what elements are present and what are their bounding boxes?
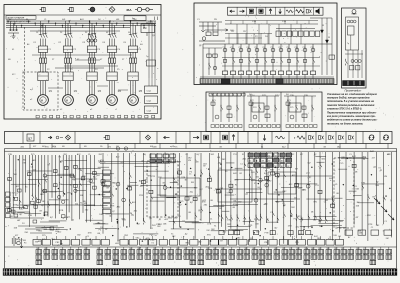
stems from legend strip bbox=[29, 144, 31, 149]
switch box B2 bbox=[63, 72, 73, 81]
strip icon: sine bbox=[276, 136, 285, 139]
svg-text:КМ: КМ bbox=[12, 192, 15, 194]
svg-text:4Щ: 4Щ bbox=[143, 154, 146, 156]
strip icon: pair 2 bbox=[318, 136, 320, 140]
svg-text:КМ: КМ bbox=[384, 176, 387, 178]
svg-text:2В2: 2В2 bbox=[318, 248, 321, 250]
MR divider 1 bbox=[243, 92, 245, 132]
wire column bbox=[283, 152, 285, 244]
MR sub-circuit 3 bbox=[284, 95, 316, 97]
wire column bbox=[249, 152, 251, 242]
svg-text:1ПВ: 1ПВ bbox=[59, 210, 64, 212]
svg-text:1ПВ: 1ПВ bbox=[288, 226, 293, 228]
MR mid boxes bbox=[252, 103, 264, 112]
svg-text:М: М bbox=[66, 98, 68, 102]
TR2 dark footer bbox=[343, 81, 365, 86]
wire column bbox=[135, 153, 137, 221]
svg-text:0В2: 0В2 bbox=[252, 248, 255, 250]
svg-text:1ПВ: 1ПВ bbox=[156, 224, 161, 226]
wire column bbox=[117, 153, 119, 241]
svg-text:2В2: 2В2 bbox=[221, 248, 224, 250]
strip divider bbox=[200, 132, 202, 144]
TR2 wires bbox=[347, 50, 349, 78]
TL mid links bbox=[64, 65, 118, 67]
svg-text:1ЛМ: 1ЛМ bbox=[252, 21, 256, 23]
fuse block F1 bbox=[39, 58, 41, 63]
svg-text:Р11: Р11 bbox=[303, 47, 306, 49]
svg-text:ЗВ2: ЗВ2 bbox=[296, 248, 299, 250]
wire column bbox=[194, 153, 196, 239]
wire column bbox=[230, 152, 232, 229]
thermal relay PT5 bbox=[128, 46, 137, 52]
strip divider bbox=[345, 132, 347, 144]
TR1 right column with diodes bbox=[321, 18, 323, 75]
TR1 branch 5 bbox=[256, 44, 258, 71]
strip icon: boxed 57 bbox=[27, 134, 34, 141]
strip icon: pair 3 bbox=[328, 136, 330, 140]
fuse block F4 bbox=[108, 58, 110, 63]
wire column bbox=[208, 153, 210, 223]
TR1 branch 10 bbox=[296, 44, 298, 71]
svg-text:М: М bbox=[131, 98, 133, 102]
strip divider bbox=[271, 132, 273, 144]
svg-text:282: 282 bbox=[184, 248, 187, 250]
wire column bbox=[102, 153, 104, 234]
wire column bbox=[276, 152, 278, 223]
wire column bbox=[15, 155, 17, 196]
wire column bbox=[200, 153, 202, 221]
bus line L1 bbox=[6, 20, 156, 22]
svg-text:панелях блоков релейных включе: панелях блоков релейных включения bbox=[327, 104, 375, 107]
strip divider bbox=[335, 132, 337, 144]
svg-text:номером 5п(5п), концов проводо: номером 5п(5п), концов проводов bbox=[327, 97, 370, 100]
svg-text:Р9: Р9 bbox=[287, 47, 289, 49]
motor М1 bbox=[38, 95, 49, 106]
wire column bbox=[25, 155, 27, 192]
junction dots bbox=[185, 204, 186, 205]
wire column bbox=[51, 155, 53, 198]
strip icon: up arrow bbox=[233, 135, 235, 141]
strip icon: right arrow bbox=[193, 137, 199, 139]
feeder column М2 bbox=[64, 21, 66, 34]
wire column bbox=[86, 155, 88, 222]
icon sine bbox=[286, 10, 293, 13]
svg-text:5Б2: 5Б2 bbox=[129, 248, 132, 250]
wire column bbox=[225, 152, 227, 230]
middle-right auxiliary box bbox=[206, 92, 322, 132]
wire column bbox=[332, 152, 334, 241]
MR sub-circuit 2 bbox=[247, 95, 279, 97]
svg-text:4Щ: 4Щ bbox=[218, 162, 221, 164]
thermal relay PT4 bbox=[107, 46, 116, 52]
svg-text:М: М bbox=[90, 98, 92, 102]
wire column bbox=[93, 155, 95, 206]
strip divider bbox=[237, 132, 239, 144]
wire column bbox=[22, 155, 24, 208]
strip divider bbox=[175, 132, 177, 144]
TR1 left mini circuit bbox=[199, 21, 222, 23]
MR divider 2 bbox=[280, 92, 282, 132]
svg-text:5Б2: 5Б2 bbox=[36, 248, 39, 250]
svg-text:1ПВ: 1ПВ bbox=[341, 157, 346, 159]
connector block mass 2 bbox=[150, 154, 155, 158]
svg-text:С1: С1 bbox=[44, 19, 46, 21]
wire column bbox=[259, 152, 261, 231]
svg-text:1ПВ: 1ПВ bbox=[361, 182, 366, 184]
wire column bbox=[62, 155, 64, 194]
wire column bbox=[314, 152, 316, 220]
svg-text:Р10: Р10 bbox=[295, 47, 298, 49]
header icon: breaker symbol 2 bbox=[68, 9, 70, 11]
wire column bbox=[217, 153, 219, 230]
switch box B5 bbox=[128, 72, 138, 81]
TR1 branch 3 bbox=[240, 44, 242, 71]
reactor coils L1-L3 bbox=[87, 39, 90, 42]
wire column bbox=[65, 155, 67, 220]
top-right control circuit box bbox=[194, 3, 337, 85]
wire column bbox=[28, 155, 30, 227]
svg-text:282: 282 bbox=[97, 248, 100, 250]
wire column bbox=[383, 152, 385, 224]
strip divider bbox=[325, 132, 327, 144]
svg-text:КМ: КМ bbox=[386, 238, 389, 240]
TR1 feeder arrow line bbox=[205, 29, 228, 31]
strip icon: circulate 1 bbox=[369, 135, 374, 137]
group frame 3 bbox=[218, 170, 252, 202]
svg-text:Р8: Р8 bbox=[279, 47, 281, 49]
dashed enclosure line bbox=[24, 27, 26, 110]
svg-text:ЗВ2: ЗВ2 bbox=[244, 248, 247, 250]
svg-text:4Щ: 4Щ bbox=[75, 203, 78, 205]
ground bbox=[12, 36, 16, 38]
wire column bbox=[172, 153, 174, 229]
svg-text:45А: 45А bbox=[126, 8, 132, 12]
bottom top rail 1 bbox=[5, 148, 397, 150]
strip divider bbox=[362, 132, 364, 144]
svg-text:2В2: 2В2 bbox=[334, 248, 337, 250]
svg-text:КМ: КМ bbox=[207, 230, 210, 232]
svg-text:1ПВ: 1ПВ bbox=[234, 179, 239, 181]
wire column bbox=[129, 153, 131, 227]
strip divider bbox=[22, 132, 24, 144]
connector block mass 1 bbox=[248, 153, 253, 157]
svg-text:КМ: КМ bbox=[44, 176, 47, 178]
TR1 mid wiring fill bbox=[225, 33, 272, 35]
contactor K4 bbox=[109, 34, 111, 38]
icon contact pair bbox=[306, 9, 308, 13]
wire column bbox=[325, 152, 327, 220]
svg-text:Р3: Р3 bbox=[239, 47, 241, 49]
wire column bbox=[361, 152, 363, 235]
contactor K5 bbox=[130, 34, 132, 38]
icon left arrow bbox=[230, 10, 235, 12]
wire column bbox=[123, 153, 125, 227]
bus tap stubs bbox=[7, 21, 9, 24]
rail y=247 bbox=[5, 246, 397, 248]
wire column bbox=[353, 152, 355, 224]
TL right box bbox=[147, 60, 156, 66]
svg-text:ЗВ2: ЗВ2 bbox=[304, 248, 307, 250]
svg-text:подключать 5-е учетом монтажа: подключать 5-е учетом монтажа на bbox=[327, 100, 375, 103]
stacked terminal groups bbox=[36, 250, 42, 254]
motor М2 bbox=[63, 95, 74, 106]
strip divider bbox=[257, 132, 259, 144]
wire column bbox=[266, 152, 268, 223]
svg-text:Р12: Р12 bbox=[311, 47, 314, 49]
left terminal stack bbox=[6, 192, 11, 196]
bottom black terminal ruler bar bbox=[3, 269, 397, 276]
strip icon: sq-in-sq 2 bbox=[223, 135, 228, 140]
TR1 branch 4 bbox=[248, 44, 250, 71]
svg-text:Р2: Р2 bbox=[231, 47, 233, 49]
svg-text:282: 282 bbox=[282, 248, 285, 250]
thermal relay PT2 bbox=[63, 46, 72, 52]
dashed group box 5 bbox=[334, 158, 354, 228]
wire column bbox=[367, 152, 369, 241]
MR sub-circuit 1 bbox=[209, 95, 241, 97]
svg-text:ЗВ2: ЗВ2 bbox=[137, 248, 140, 250]
mid-left terminal stack bbox=[103, 170, 111, 174]
wire column bbox=[345, 152, 347, 235]
TR1 branch 8 bbox=[280, 44, 282, 71]
svg-text:РУ4: РУ4 bbox=[253, 107, 256, 109]
svg-text:1ПВ: 1ПВ bbox=[227, 219, 232, 221]
switch box B4 bbox=[107, 72, 117, 81]
title text block bbox=[6, 16, 36, 19]
svg-text:0В2: 0В2 bbox=[274, 248, 277, 250]
TL right feeder lines bbox=[148, 21, 150, 78]
coil rectangle row bbox=[33, 240, 41, 246]
header icon: motor circle bbox=[90, 7, 95, 12]
fuse block F2 bbox=[64, 58, 66, 63]
right coil rects bbox=[345, 230, 353, 235]
wire column bbox=[339, 152, 341, 232]
wire column bbox=[156, 153, 158, 218]
svg-text:Р7: Р7 bbox=[271, 47, 273, 49]
svg-text:Р5: Р5 bbox=[255, 47, 257, 49]
svg-text:2В2: 2В2 bbox=[356, 248, 359, 250]
top-left power circuit box bbox=[4, 5, 161, 120]
svg-text:Р4: Р4 bbox=[247, 47, 249, 49]
strip divider bbox=[74, 132, 76, 144]
motor М5 bbox=[128, 95, 139, 106]
icon square bbox=[249, 9, 253, 13]
TR1 branch 9 bbox=[288, 44, 290, 71]
strip icon: sq-in-sq bbox=[204, 135, 209, 140]
dashed enclosure box around column 1 bbox=[23, 72, 58, 110]
strip divider bbox=[247, 132, 249, 144]
TR1 rail bbox=[203, 43, 332, 45]
strip icon: circulate 2 bbox=[384, 135, 389, 137]
motor М4 bbox=[107, 95, 118, 106]
strip divider bbox=[219, 132, 221, 144]
TR1 branch 1 bbox=[224, 44, 226, 71]
strip divider bbox=[210, 132, 212, 144]
svg-text:КМ: КМ bbox=[174, 182, 177, 184]
circled numbers bbox=[116, 147, 119, 150]
TL extra rail y=55 bbox=[32, 54, 132, 56]
wire column bbox=[31, 155, 33, 196]
strip icon: pair 1 bbox=[308, 136, 310, 140]
bus line N bbox=[6, 27, 130, 29]
svg-text:4Щ: 4Щ bbox=[272, 154, 275, 156]
wire column bbox=[391, 152, 393, 237]
icon right arrow bbox=[239, 10, 244, 12]
bus line L3 bbox=[6, 24, 156, 26]
paper noise specks bbox=[156, 231, 159, 234]
input fuses bbox=[10, 21, 12, 31]
svg-text:Н01: Н01 bbox=[116, 19, 119, 21]
svg-text:КМ: КМ bbox=[188, 160, 191, 162]
far-right narrow box bbox=[342, 8, 367, 88]
wire column bbox=[90, 155, 92, 222]
wire column bbox=[44, 155, 46, 216]
wire column bbox=[300, 152, 302, 234]
svg-text:57: 57 bbox=[28, 137, 32, 141]
group frame 2 bbox=[160, 178, 200, 196]
middle legend strip bbox=[5, 132, 393, 144]
svg-text:2В2: 2В2 bbox=[84, 248, 87, 250]
svg-text:282: 282 bbox=[341, 248, 344, 250]
feeder column М1 bbox=[39, 21, 41, 34]
fuse block F3 bbox=[88, 58, 90, 63]
wire column bbox=[54, 155, 56, 218]
svg-text:КМ: КМ bbox=[191, 182, 194, 184]
svg-text:1ПВ: 1ПВ bbox=[88, 232, 93, 234]
svg-text:1ПВ: 1ПВ bbox=[181, 177, 186, 179]
horizontal interconnect wires bbox=[274, 191, 285, 193]
svg-text:W: W bbox=[328, 37, 330, 39]
TR1 inner top wiring bbox=[225, 23, 318, 25]
strip icon: down arrow bbox=[264, 135, 266, 141]
wire column bbox=[255, 152, 257, 228]
icon speaker bbox=[316, 8, 320, 14]
wire column bbox=[186, 153, 188, 220]
svg-text:ЗВ2: ЗВ2 bbox=[326, 248, 329, 250]
svg-text:282: 282 bbox=[153, 248, 156, 250]
TR1 rail y=57.5 bbox=[222, 57, 320, 59]
svg-text:Тр: Тр bbox=[347, 43, 349, 45]
svg-text:КМ: КМ bbox=[295, 168, 298, 170]
svg-text:2В2: 2В2 bbox=[370, 248, 373, 250]
feeder column М3 bbox=[88, 21, 90, 34]
svg-text:Р1: Р1 bbox=[223, 47, 225, 49]
TR1 left ladder bbox=[208, 48, 210, 75]
TR1 branch 2 bbox=[232, 44, 234, 71]
svg-text:1ПВ: 1ПВ bbox=[8, 154, 13, 156]
TR1 upper relay cell row bbox=[276, 31, 281, 36]
group frame 4 bbox=[268, 172, 296, 194]
bottom top rail 2 bbox=[5, 150, 397, 152]
svg-text:Р6: Р6 bbox=[263, 47, 265, 49]
strip divider bbox=[228, 132, 230, 144]
diagonal arrow symbols right bbox=[374, 198, 380, 204]
contactor K3 bbox=[89, 34, 91, 38]
fuse block F5 bbox=[129, 58, 131, 63]
strip divider bbox=[305, 132, 307, 144]
TL right stacked boxes bbox=[145, 86, 158, 94]
TR2 inner sub-box bbox=[346, 17, 359, 50]
svg-text:2В2: 2В2 bbox=[311, 248, 314, 250]
contactor K1 bbox=[40, 34, 42, 38]
dashed group box 1 bbox=[147, 161, 178, 217]
wire column bbox=[307, 152, 309, 228]
svg-text:4Щ: 4Щ bbox=[217, 157, 220, 159]
icon square filled bbox=[259, 9, 263, 13]
svg-text:2В2: 2В2 bbox=[44, 248, 47, 250]
wire column bbox=[243, 152, 245, 225]
strip divider bbox=[39, 132, 41, 144]
strip icon: diamond bbox=[145, 135, 150, 140]
TR1 branch 7 bbox=[272, 44, 274, 71]
wire column bbox=[38, 155, 40, 204]
bottom terminal ticks of TL box bbox=[36, 115, 39, 118]
wire column bbox=[164, 153, 166, 216]
thermal relay PT3 bbox=[87, 46, 96, 52]
svg-text:М: М bbox=[110, 98, 112, 102]
strip icon: breaker bbox=[104, 137, 106, 139]
wire column bbox=[142, 153, 144, 222]
strip icon: pair 4 bbox=[338, 136, 340, 140]
svg-text:Переключение напряжения при об: Переключение напряжения при обмот- bbox=[327, 111, 377, 114]
feeder column М5 bbox=[129, 21, 131, 34]
wire column bbox=[272, 152, 274, 235]
TL noise specks bbox=[102, 18, 105, 20]
wire column bbox=[47, 155, 49, 217]
wire column bbox=[82, 155, 84, 213]
svg-text:W: W bbox=[322, 25, 324, 27]
interconnect rail y=68 bbox=[55, 67, 104, 69]
svg-text:4Щ: 4Щ bbox=[190, 191, 193, 193]
header icon: hatched diamond bbox=[109, 7, 115, 13]
feeder column М4 bbox=[108, 21, 110, 34]
header icon: breaker symbol 1 bbox=[40, 9, 42, 11]
TR1 top wiring extra bbox=[225, 20, 318, 22]
bottom right border bbox=[396, 149, 398, 269]
strip divider bbox=[379, 132, 381, 144]
TR1 header icon strip bbox=[228, 7, 324, 15]
svg-text:КМ: КМ bbox=[129, 213, 132, 215]
wire column bbox=[79, 155, 81, 219]
strip divider bbox=[139, 132, 141, 144]
svg-text:КМ: КМ bbox=[143, 27, 146, 30]
TR1 footer terminal strip bbox=[200, 76, 334, 78]
strip divider bbox=[189, 132, 191, 144]
wire column bbox=[150, 153, 152, 229]
small terminal marks right bbox=[154, 17, 156, 21]
wire column bbox=[68, 155, 70, 212]
TR1 branch 6 bbox=[264, 44, 266, 71]
aux box 2 bbox=[141, 24, 155, 33]
TR2 lower cluster bbox=[351, 60, 354, 63]
svg-text:ведённое на схеме условно долж: ведённое на схеме условно должно рас- bbox=[327, 119, 378, 122]
interconnect rail y=31 bbox=[30, 30, 120, 32]
TR1 branch 11 bbox=[304, 44, 306, 71]
svg-text:Указанные на ел. соединениях в: Указанные на ел. соединениях вторым bbox=[327, 93, 377, 96]
wire column bbox=[221, 152, 223, 227]
svg-text:КМ: КМ bbox=[112, 182, 115, 184]
svg-text:ках реле установить заземление: ках реле установить заземление при- bbox=[327, 115, 376, 118]
svg-text:1ПВ: 1ПВ bbox=[82, 176, 87, 178]
strip icon: pair 5 bbox=[348, 136, 350, 140]
svg-text:1ПВ: 1ПВ bbox=[13, 205, 18, 207]
icon zigzag bbox=[296, 10, 304, 13]
bell icon inside top bbox=[352, 10, 356, 14]
switch box B1 bbox=[38, 72, 48, 81]
left lower contact cluster bbox=[13, 236, 15, 246]
svg-text:1ПВ: 1ПВ bbox=[22, 162, 27, 164]
svg-text:ЗВ2: ЗВ2 bbox=[213, 248, 216, 250]
